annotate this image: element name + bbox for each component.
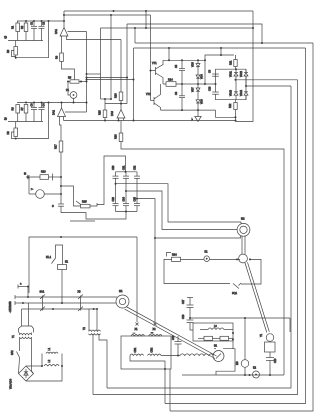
svg-text:V: V xyxy=(31,188,34,190)
svg-text:M2: M2 xyxy=(241,218,245,221)
wire head box to roller frame xyxy=(232,341,234,349)
wire DA1 input left to R4 xyxy=(61,36,63,53)
wire rail1 xyxy=(17,20,64,22)
svg-text:M1: M1 xyxy=(119,290,123,293)
potentiometer R8 xyxy=(7,122,18,139)
wire bus y48 to rail4 xyxy=(145,11,147,28)
wire step to y53.7 xyxy=(205,55,234,84)
wire cap bank common to cap E xyxy=(61,212,126,220)
svg-text:R17: R17 xyxy=(55,144,58,149)
svg-text:DA1: DA1 xyxy=(55,29,58,34)
svg-text:SA1: SA1 xyxy=(40,291,45,294)
svg-text:VD12: VD12 xyxy=(240,70,243,77)
svg-text:OB1: OB1 xyxy=(134,347,137,352)
wire bus y43 to rail5 xyxy=(134,28,136,43)
svg-text:T1: T1 xyxy=(12,335,15,338)
wire bus y24 xyxy=(127,24,262,43)
svg-text:C21: C21 xyxy=(123,165,126,170)
svg-text:R7: R7 xyxy=(21,107,24,111)
wire y149 label xyxy=(0,0,1,1)
motor unit box xyxy=(121,336,171,369)
wire bus y28 xyxy=(101,27,254,29)
svg-text:~127/220B: ~127/220B xyxy=(9,301,12,313)
svg-text:VD11: VD11 xyxy=(230,71,233,77)
wire mains L2 xyxy=(18,302,116,304)
power unit box xyxy=(29,237,137,322)
svg-text:R5: R5 xyxy=(68,77,72,80)
wire bus x253 vertical xyxy=(236,11,254,122)
capacitor C15 xyxy=(52,204,64,208)
op-amp DA2 xyxy=(53,103,66,117)
wire DA2 input left to R17 xyxy=(60,117,62,142)
op-amp DA1 xyxy=(55,11,68,36)
switch SA1 xyxy=(40,291,46,312)
svg-text:C3: C3 xyxy=(31,103,34,107)
motor M3 xyxy=(236,318,249,375)
mains terminals xyxy=(9,295,18,313)
wire y77.5 xyxy=(87,77,128,79)
vertical x137 xyxy=(136,321,138,323)
diode VD8 xyxy=(196,97,204,110)
wire base rail VT xyxy=(150,15,152,101)
wire rail x313 loop xyxy=(170,43,313,411)
svg-text:P1: P1 xyxy=(66,89,70,92)
lamp HL1 xyxy=(204,251,240,262)
svg-text:C5: C5 xyxy=(175,64,178,68)
svg-text:R2: R2 xyxy=(21,25,24,29)
wire lamp branch box xyxy=(164,259,230,283)
capacitor C18 xyxy=(182,314,194,330)
stair wire 1 xyxy=(116,184,242,224)
wire y375 bottom bus xyxy=(182,374,284,376)
svg-text:C10: C10 xyxy=(209,86,212,91)
svg-text:C19: C19 xyxy=(274,358,277,363)
shaft M2 xyxy=(242,236,245,254)
svg-text:R22: R22 xyxy=(229,103,232,108)
winding W1 xyxy=(131,333,145,337)
trimmer R5 xyxy=(68,77,87,84)
wire T2 sec to bus xyxy=(92,334,94,395)
wire R4 to R5 xyxy=(62,62,75,80)
capacitor C2 xyxy=(39,21,46,41)
capacitor C25 xyxy=(134,196,141,211)
winding OB2 xyxy=(148,347,162,355)
winding OB1 xyxy=(130,347,144,355)
capacitor C6 xyxy=(175,84,185,110)
svg-text:II: II xyxy=(151,332,154,334)
diode VD14 xyxy=(240,89,248,99)
transformer T1 xyxy=(12,333,32,372)
diode VD6 xyxy=(196,72,204,84)
svg-text:Э: Э xyxy=(52,205,54,208)
wire y79.5 xyxy=(87,79,134,81)
diode VD12 xyxy=(240,69,248,85)
svg-text:VD14: VD14 xyxy=(240,89,243,96)
inductor to roller xyxy=(180,354,213,356)
capacitor C3 xyxy=(31,103,38,122)
wire y318 xyxy=(190,317,290,319)
resistor R16 xyxy=(115,40,123,110)
inductor L3 xyxy=(200,325,233,330)
crank box xyxy=(265,342,276,358)
wire bus y15 xyxy=(64,14,151,16)
svg-text:R18: R18 xyxy=(115,134,118,139)
wire out y79.8 to rail xyxy=(236,79,298,81)
svg-text:I: I xyxy=(133,333,136,334)
resistor R7 xyxy=(21,105,28,122)
svg-text:C16: C16 xyxy=(172,335,175,340)
svg-text:R15: R15 xyxy=(99,110,102,115)
capacitor C5 xyxy=(175,60,185,84)
transistor VT2 xyxy=(146,84,161,110)
svg-text:R4: R4 xyxy=(56,55,59,59)
wire DA2 feedback xyxy=(65,111,87,113)
wire vert x86 xyxy=(86,32,88,113)
svg-text:R23: R23 xyxy=(41,171,46,174)
wire rail2 xyxy=(17,102,87,104)
gear wheel xyxy=(239,254,248,263)
wire y110 bottom rail xyxy=(161,109,216,111)
svg-text:R1: R1 xyxy=(12,25,15,29)
wire y99 xyxy=(101,98,112,100)
svg-text:М: М xyxy=(24,173,26,176)
wire x100.5 feedback xyxy=(100,28,102,99)
svg-text:C22: C22 xyxy=(134,165,137,170)
svg-text:C6: C6 xyxy=(175,91,178,95)
wire R16 down R continue xyxy=(120,121,122,134)
wire gear loop xyxy=(241,259,261,284)
resistor R2 xyxy=(21,21,28,41)
svg-text:R8: R8 xyxy=(7,131,10,135)
svg-text:Y1: Y1 xyxy=(260,333,263,337)
svg-text:C24: C24 xyxy=(123,196,126,201)
wire rail x297.5 loop xyxy=(93,80,298,395)
node rail1 junctions xyxy=(25,20,65,22)
svg-text:R24: R24 xyxy=(172,254,177,257)
wire x190 chain xyxy=(187,298,193,306)
vertical x155 xyxy=(154,238,156,322)
wire lamp to pot xyxy=(61,186,81,206)
resistor R6 xyxy=(12,105,20,122)
potentiometer R3 xyxy=(7,41,18,58)
connector X2 xyxy=(153,323,157,332)
svg-text:SA2: SA2 xyxy=(11,350,14,355)
capacitor C1 xyxy=(31,21,38,41)
svg-text:VD7: VD7 xyxy=(192,87,195,92)
resistor R14 xyxy=(163,79,216,87)
svg-text:Э: Э xyxy=(4,116,7,121)
svg-text:VD13: VD13 xyxy=(230,89,233,96)
resistor R23 xyxy=(40,171,61,181)
wire DA2 input right xyxy=(63,117,65,121)
svg-text:X2: X2 xyxy=(153,328,157,331)
svg-text:M3: M3 xyxy=(236,361,239,365)
capacitor bank selector box xyxy=(97,156,126,205)
wire y120.5 xyxy=(64,120,236,122)
meter P1 xyxy=(66,82,77,103)
diode VD13 xyxy=(230,80,239,100)
lamp VL1 xyxy=(29,188,61,198)
lamp E2 xyxy=(253,367,260,379)
switch SQ1 xyxy=(232,283,241,295)
svg-text:C1: C1 xyxy=(31,21,34,25)
wire vert x111 xyxy=(110,15,112,99)
svg-text:R14: R14 xyxy=(168,79,173,82)
capacitor C17 xyxy=(182,299,194,320)
wire step y117.3 xyxy=(216,110,236,117)
roller R xyxy=(213,345,224,362)
wire pot2 to rail2 xyxy=(16,103,49,139)
svg-text:VD5: VD5 xyxy=(192,62,195,67)
svg-text:VD1-VD4: VD1-VD4 xyxy=(10,378,13,389)
choke filter L1 L2 xyxy=(26,347,62,381)
svg-text:L2: L2 xyxy=(48,359,51,362)
wire stub to y48 bus xyxy=(220,48,222,55)
terminal a xyxy=(18,283,28,298)
svg-text:OB2: OB2 xyxy=(151,347,154,352)
switch SA2 xyxy=(11,350,20,358)
transistor VT1 xyxy=(151,60,164,77)
svg-text:VD6: VD6 xyxy=(201,74,204,79)
wire cap bank top rail xyxy=(116,171,138,173)
roller frame box xyxy=(216,349,235,375)
relay coil K1 xyxy=(58,261,69,304)
svg-text:R16: R16 xyxy=(115,93,118,98)
resistor R4 xyxy=(56,53,64,62)
svg-text:R25: R25 xyxy=(82,201,87,204)
svg-text:C9: C9 xyxy=(209,69,212,73)
wire x165 to bus xyxy=(164,369,166,404)
svg-text:C18: C18 xyxy=(182,314,185,319)
resistor R22 xyxy=(229,100,237,122)
plug XP1 xyxy=(19,303,34,333)
svg-text:E1: E1 xyxy=(205,251,209,254)
ground xyxy=(191,111,201,122)
capacitor C24 xyxy=(123,191,130,212)
svg-text:R6: R6 xyxy=(12,107,15,111)
relay contact K1.1 xyxy=(46,245,63,265)
svg-text:T2: T2 xyxy=(83,327,86,330)
pivot crank xyxy=(260,333,274,341)
svg-text:K1: K1 xyxy=(65,261,69,264)
capacitor C4 xyxy=(39,103,46,122)
capacitor C23 xyxy=(112,184,119,212)
wire link y48 to collector rail xyxy=(168,48,170,60)
wire DA1 out bus xyxy=(64,10,253,12)
wire DA1 feedback xyxy=(68,31,87,33)
resistor R1 xyxy=(12,21,20,41)
svg-text:C4: C4 xyxy=(43,103,46,107)
svg-text:SQ1: SQ1 xyxy=(232,292,238,295)
stair wire 3 xyxy=(137,199,241,238)
svg-text:C2: C2 xyxy=(43,21,46,25)
wire rail x291 loop xyxy=(107,86,291,388)
wire y221 stub xyxy=(70,220,95,222)
wire pot1 to rail xyxy=(16,21,49,58)
lever arm xyxy=(245,262,269,332)
stair wire 2 xyxy=(126,191,237,230)
resistor R18 xyxy=(115,133,123,142)
motor M2 xyxy=(237,218,250,237)
diode VD11 xyxy=(230,69,239,80)
resistor R27 xyxy=(213,336,234,340)
svg-text:DA2: DA2 xyxy=(53,110,56,115)
resistor R15 xyxy=(99,99,107,121)
capacitor C20 xyxy=(112,165,119,184)
bridge rectifier VD1-VD4 xyxy=(10,358,34,390)
winding W2 xyxy=(149,332,163,336)
svg-text:K1.1: K1.1 xyxy=(46,256,52,259)
wire y74 xyxy=(87,73,101,75)
wire y60.3 collector rail xyxy=(163,59,205,61)
belt drive xyxy=(125,307,217,359)
diode VD5 xyxy=(192,60,201,72)
resistor R26 xyxy=(198,336,213,340)
svg-text:X3: X3 xyxy=(78,291,82,294)
svg-text:C17: C17 xyxy=(182,299,185,304)
svg-text:C20: C20 xyxy=(112,165,115,170)
output arrow terminal xyxy=(24,173,40,195)
svg-text:L3: L3 xyxy=(214,325,217,328)
connector X1 xyxy=(135,323,139,332)
wire T2 sec2 to bus xyxy=(99,334,107,388)
svg-text:R21: R21 xyxy=(230,60,233,65)
svg-text:E2: E2 xyxy=(253,367,257,370)
wire R17 down xyxy=(60,152,62,204)
transformer T2 xyxy=(83,309,101,335)
resistor R17 xyxy=(55,141,63,152)
wire DA1 input right xyxy=(67,36,122,40)
wire mains L1 xyxy=(18,296,117,298)
diode VD7 xyxy=(192,84,201,97)
wire vert x127 xyxy=(126,24,128,104)
svg-text:C25: C25 xyxy=(134,196,137,201)
resistor R24 xyxy=(167,253,204,262)
capacitor C16 xyxy=(172,335,182,356)
wire out y86.5 to rail xyxy=(246,85,291,87)
head unit box xyxy=(193,323,233,341)
svg-text:C23: C23 xyxy=(112,196,115,201)
svg-text:R3: R3 xyxy=(7,49,10,53)
capacitor C22 xyxy=(134,165,141,199)
node ch1 lower line xyxy=(4,35,43,41)
svg-text:Э: Э xyxy=(4,35,7,40)
resistor R21 xyxy=(230,55,238,69)
wire x170 to bus xyxy=(169,369,171,411)
svg-text:X1: X1 xyxy=(135,328,139,331)
op-amp DA3 xyxy=(111,110,125,121)
motor M1 xyxy=(116,290,129,308)
svg-text:a: a xyxy=(20,283,22,286)
wire cap bank bottom rail xyxy=(116,211,138,213)
wire VT1 emitter to R14 xyxy=(162,78,164,85)
connector X3 xyxy=(78,291,84,312)
pulse shaper box xyxy=(216,69,247,100)
node ch2 lower line xyxy=(4,116,43,122)
svg-text:VT1: VT1 xyxy=(152,62,157,65)
capacitor C10 xyxy=(209,86,219,94)
svg-text:VD8: VD8 xyxy=(201,99,204,104)
trimmer R25 xyxy=(76,201,97,208)
capacitor C9 xyxy=(209,69,219,76)
svg-text:DA3: DA3 xyxy=(111,111,114,116)
wire rail x305.5 loop xyxy=(165,48,306,404)
wire windings inner xyxy=(130,356,180,370)
capacitor C19 xyxy=(266,358,277,376)
wire mains L3 xyxy=(22,308,98,310)
capacitor C21 xyxy=(123,165,130,191)
svg-text:B1: B1 xyxy=(214,345,218,348)
wire R18 to rail1r xyxy=(121,142,284,376)
wire y103.6 stub xyxy=(105,103,127,105)
svg-text:L1: L1 xyxy=(48,347,51,350)
wire x290 stub xyxy=(289,318,291,332)
